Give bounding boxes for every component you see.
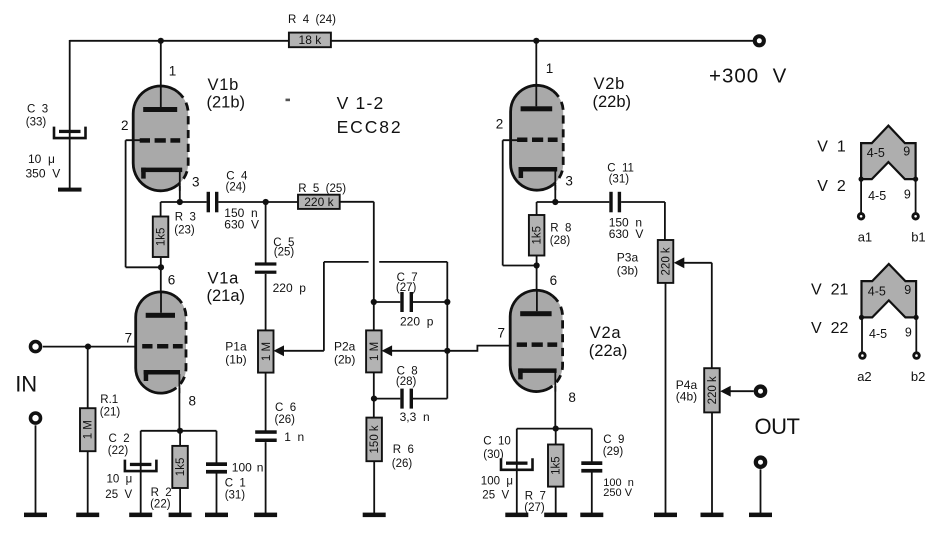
resistor R2 (172, 446, 188, 488)
svg-text:R 4 (24): R 4 (24) (288, 14, 336, 26)
label V 22 (811, 320, 848, 337)
wire C8 right (413, 398, 447, 400)
terminal +300 V (755, 36, 764, 45)
label pins 4-5 V22 (869, 327, 887, 341)
wire V1a cathode (178, 388, 180, 431)
svg-text:(27): (27) (396, 282, 417, 294)
label P4a (676, 378, 698, 404)
label P2a (334, 340, 356, 367)
label C3 (26, 103, 48, 128)
svg-text:V 1: V 1 (817, 139, 846, 156)
wire IN lower ground (35, 425, 37, 513)
svg-text:C 4: C 4 (226, 170, 248, 182)
label b1 (911, 230, 925, 245)
capacitor C9 (581, 461, 602, 472)
svg-text:(30): (30) (483, 449, 504, 461)
label b2 (911, 369, 925, 384)
arrow P1a wiper (274, 345, 285, 356)
svg-text:R 5 (25): R 5 (25) (298, 183, 346, 195)
label C2 value (105, 473, 132, 501)
wire P2a top (373, 302, 375, 330)
label C5 (273, 237, 294, 259)
wire V1b grid (126, 140, 161, 267)
svg-text:(25): (25) (274, 247, 295, 259)
label C11 value (609, 215, 644, 241)
terminal OUT lower (756, 458, 765, 467)
svg-text:V1b: V1b (208, 76, 239, 94)
arrow P4a wiper (720, 386, 731, 397)
wire P1a wiper crossover (379, 262, 447, 302)
ground C2 (129, 513, 152, 518)
capacitor C6 (255, 430, 277, 442)
label C4 value (224, 206, 259, 232)
node C4-R5 (263, 199, 269, 205)
triode V1a (136, 291, 186, 393)
svg-text:C 3: C 3 (27, 103, 48, 115)
svg-text:220 k: 220 k (707, 376, 719, 404)
capacitor C11 (609, 192, 621, 213)
svg-text:10 μ: 10 μ (107, 473, 133, 485)
svg-text:1 M: 1 M (369, 342, 381, 361)
label R4 (288, 14, 336, 26)
svg-text:b1: b1 (911, 230, 925, 245)
svg-text:6: 6 (168, 272, 176, 287)
resistor R4 (289, 33, 331, 48)
wire C9 bottom (591, 471, 593, 514)
node V2b cathode (552, 199, 558, 205)
wire P3a wiper (683, 263, 712, 369)
wire C5 top (265, 202, 267, 263)
triode V1b (133, 86, 188, 191)
terminal OUT upper (756, 387, 765, 396)
svg-text:250 V: 250 V (603, 487, 632, 499)
resistor R6 (366, 418, 382, 462)
wire C11 left (555, 201, 609, 203)
wire P4a wiper (730, 390, 754, 392)
capacitor C1 (206, 462, 227, 473)
capacitor C2 (125, 460, 156, 472)
label C7 (396, 272, 418, 294)
node pin1 V2b (533, 38, 539, 44)
svg-text:8: 8 (568, 390, 576, 405)
svg-text:(22): (22) (150, 498, 171, 510)
node C7 right (444, 299, 450, 305)
label V2b (593, 75, 632, 111)
label pin 2 V2b (496, 117, 504, 132)
svg-text:V 1-2: V 1-2 (337, 93, 385, 113)
label pin 6 V2a (550, 273, 558, 288)
svg-text:9: 9 (904, 188, 911, 202)
label V2a (589, 324, 628, 360)
svg-text:6: 6 (550, 273, 558, 288)
label C5 value (273, 281, 307, 295)
node heater b1 (913, 177, 918, 182)
label pins 4-5 V2 (868, 189, 886, 203)
svg-text:C 6: C 6 (275, 402, 296, 414)
label C4 (226, 170, 248, 193)
label R7 (524, 491, 546, 514)
label pin 8 V1a (189, 394, 197, 409)
label OUT (755, 414, 800, 439)
triode V2a (510, 290, 562, 392)
label pin 1 V1b (169, 64, 177, 79)
label C10 value (481, 475, 513, 501)
svg-text:(33): (33) (26, 116, 47, 128)
svg-text:(31): (31) (609, 174, 630, 186)
label V 1-2 (337, 93, 385, 113)
svg-text:(22): (22) (108, 445, 129, 457)
ground R1 (76, 513, 99, 518)
node P2a top (371, 299, 377, 305)
resistor R8 (529, 215, 545, 256)
svg-text:(21): (21) (100, 406, 121, 418)
wire V1b plate (160, 41, 162, 88)
label V 2 (817, 178, 846, 195)
svg-text:(27): (27) (524, 502, 545, 514)
svg-text:(26): (26) (392, 458, 413, 470)
wire cathode node h (141, 430, 217, 432)
svg-text:3: 3 (192, 175, 200, 190)
node SRPP V1 (158, 264, 164, 270)
terminal IN lower (31, 413, 41, 423)
heater jumper V1 (861, 126, 916, 180)
svg-text:4-5: 4-5 (867, 146, 885, 160)
wire C8 left (374, 398, 401, 400)
node heater a1 (859, 177, 864, 182)
wire R7 top (555, 429, 557, 445)
svg-text:18 k: 18 k (299, 33, 323, 47)
arrow P3a wiper (674, 257, 685, 268)
svg-text:9: 9 (903, 145, 910, 159)
svg-text:350 V: 350 V (26, 166, 61, 180)
capacitor C3 (54, 127, 86, 139)
svg-text:630 V: 630 V (224, 218, 259, 232)
node V1b cathode (177, 199, 183, 205)
label P3a (617, 251, 639, 278)
svg-text:a1: a1 (858, 230, 872, 245)
potentiometer P1a (258, 330, 274, 372)
svg-text:7: 7 (125, 330, 133, 345)
svg-text:(26): (26) (275, 414, 296, 426)
wire C1 top (216, 431, 218, 463)
svg-text:1k5: 1k5 (175, 458, 187, 477)
label a2 (857, 369, 871, 384)
svg-text:100 μ: 100 μ (481, 475, 513, 487)
svg-text:V2b: V2b (594, 75, 625, 93)
wire heater a1 (860, 179, 862, 213)
capacitor C7 (400, 292, 413, 312)
resistor R3 (153, 217, 169, 258)
label V 1 (817, 139, 846, 156)
svg-text:220 k: 220 k (304, 195, 334, 209)
node V1a cathode (177, 428, 183, 434)
wire C7 left (374, 301, 401, 303)
node IN-R1 (85, 344, 91, 350)
svg-text:220 p: 220 p (400, 315, 434, 329)
terminal b2 (914, 353, 920, 359)
wire C4 left (180, 201, 207, 203)
svg-text:8: 8 (189, 394, 197, 409)
wire heater b1 (915, 179, 917, 213)
svg-text:1 M: 1 M (261, 342, 273, 361)
capacitor C8 (400, 389, 413, 409)
label C3 value (26, 152, 61, 181)
svg-text:R.1: R.1 (100, 394, 118, 406)
node pin1 V1b (158, 38, 164, 44)
ground OUT (749, 513, 772, 518)
svg-text:V 21: V 21 (811, 282, 848, 299)
wire V2a cathode h (517, 428, 592, 430)
ground P3a (654, 513, 677, 518)
svg-text:V2a: V2a (590, 324, 622, 342)
svg-text:4-5: 4-5 (868, 285, 886, 299)
wire V1b cathode (179, 186, 181, 202)
wire C4 right (218, 201, 298, 203)
wire P1a-C6 (265, 373, 267, 431)
svg-text:1k5: 1k5 (551, 456, 563, 475)
svg-text:1: 1 (546, 61, 554, 76)
label pin 9 V22 (905, 326, 912, 340)
wire C5-P1a (265, 274, 267, 331)
label R6 (392, 444, 414, 470)
svg-text:1: 1 (169, 64, 177, 79)
label pins 4-5 V21 (868, 285, 886, 299)
svg-text:(22a): (22a) (589, 342, 628, 360)
svg-text:ECC82: ECC82 (337, 117, 403, 137)
svg-text:C 10: C 10 (483, 436, 511, 448)
capacitor C5 (255, 262, 277, 273)
wire C2 branch (140, 431, 142, 514)
label pin 9 V21 (904, 283, 911, 297)
svg-text:10 μ: 10 μ (28, 152, 55, 166)
wire C10 branch (516, 429, 518, 514)
wire R6 bottom (373, 461, 375, 513)
svg-text:n: n (257, 461, 264, 475)
label pin 6 V1a (168, 272, 176, 287)
svg-text:100: 100 (232, 461, 252, 475)
svg-text:1k5: 1k5 (532, 226, 544, 245)
ground C9 (580, 513, 603, 518)
svg-text:(4b): (4b) (676, 390, 697, 404)
label C10 (483, 436, 511, 461)
wire +300V rail (70, 40, 754, 42)
svg-text:1k5: 1k5 (156, 228, 168, 247)
triode V2b (511, 85, 564, 190)
label R8 (550, 222, 572, 247)
node SRPP V2 (534, 262, 540, 268)
wire C9 top (591, 429, 593, 462)
label pin 3 V1b (192, 175, 200, 190)
svg-text:220 p: 220 p (273, 281, 307, 295)
wire P4a bottom (711, 412, 713, 513)
svg-text:1 n: 1 n (284, 430, 304, 444)
svg-text:(21b): (21b) (207, 94, 246, 112)
terminal a2 (860, 353, 866, 359)
wire IN (43, 346, 149, 348)
svg-text:25 V: 25 V (482, 490, 509, 502)
wire V2b cathode (554, 185, 556, 202)
wire R2 bottom (179, 488, 181, 514)
svg-text:3,3 n: 3,3 n (400, 410, 430, 424)
svg-text:(1b): (1b) (225, 352, 246, 366)
svg-text:(23): (23) (174, 225, 195, 237)
label pins 4-5 V1 (867, 146, 885, 160)
svg-text:25 V: 25 V (105, 489, 132, 501)
node heater a2 (859, 315, 864, 320)
svg-text:C 9: C 9 (603, 434, 624, 446)
ground C10 (505, 513, 528, 518)
resistor R1 (80, 408, 96, 451)
label C11 (607, 163, 634, 186)
svg-text:4-5: 4-5 (869, 327, 887, 341)
label a1 (858, 230, 872, 245)
capacitor C4 (207, 192, 219, 213)
node V2a cathode (553, 426, 559, 432)
svg-text:9: 9 (905, 326, 912, 340)
potentiometer P3a (658, 240, 674, 283)
wire R5 right (340, 202, 374, 302)
svg-text:4-5: 4-5 (868, 189, 886, 203)
label C9 (603, 434, 625, 458)
wire R3 bottom (160, 257, 162, 312)
label R3 (174, 212, 196, 237)
label V1a (207, 269, 246, 305)
label pin 8 V2a (568, 390, 576, 405)
node P2a-R6 (371, 396, 377, 402)
ground R2 (169, 513, 192, 518)
ground P4a (701, 513, 724, 518)
label R1 (100, 394, 121, 418)
svg-text:(31): (31) (225, 489, 246, 501)
ground R7 (544, 513, 567, 518)
wire C3 branch (69, 40, 71, 188)
wire V2b grid (503, 140, 537, 265)
label R2 (150, 487, 172, 511)
label V 21 (811, 282, 848, 299)
potentiometer P2a (366, 330, 382, 372)
label pin 1 V2b (546, 61, 554, 76)
svg-text:7: 7 (498, 326, 506, 341)
svg-text:1 M: 1 M (83, 420, 95, 439)
wire P2a wiper (391, 350, 447, 352)
wire C7 right (413, 301, 447, 303)
node heater b2 (914, 315, 919, 320)
ground C6 (254, 513, 277, 518)
svg-text:2: 2 (121, 118, 129, 133)
wire R2 top (179, 431, 181, 446)
label C6 (275, 402, 297, 426)
potentiometer P4a (704, 368, 720, 412)
wire R3 top (161, 202, 180, 217)
wire C11 right (621, 202, 665, 240)
svg-text:150 k: 150 k (369, 425, 381, 453)
ground C3 (58, 188, 82, 192)
wire P3a bottom (665, 283, 667, 514)
wire R1 top (87, 347, 89, 409)
wire R1 bottom (87, 451, 89, 513)
svg-text:a2: a2 (857, 369, 871, 384)
svg-text:(28): (28) (550, 235, 571, 247)
capacitor C10 (501, 458, 533, 470)
svg-text:(2b): (2b) (334, 352, 355, 366)
ground R6 (363, 513, 386, 518)
resistor R7 (548, 445, 564, 487)
label pin 9 V2 (904, 188, 911, 202)
svg-text:R 6: R 6 (393, 444, 414, 456)
label C1 value (232, 461, 264, 475)
ground C1 (205, 513, 228, 518)
wire OUT ground (760, 469, 762, 513)
svg-text:9: 9 (904, 283, 911, 297)
svg-text:V1a: V1a (208, 269, 240, 287)
wire P2a bottom (373, 372, 375, 417)
wire heater b2 (915, 317, 917, 352)
label pin 2 V1b (121, 118, 129, 133)
ground IN (24, 513, 47, 518)
svg-text:C 2: C 2 (109, 433, 130, 445)
wire P1a wiper (283, 262, 369, 351)
svg-text:(28): (28) (396, 376, 417, 388)
label C8 (396, 365, 418, 388)
label C8 value (400, 410, 430, 424)
wire V2b plate (535, 41, 537, 87)
svg-text:IN: IN (15, 372, 37, 397)
label pin 7 V2a (498, 326, 506, 341)
wire C6 bottom (265, 442, 267, 513)
svg-text:R 2: R 2 (151, 487, 172, 499)
svg-text:(22b): (22b) (593, 93, 632, 111)
label V1b (207, 76, 246, 112)
arrow P2a wiper (382, 345, 393, 356)
resistor R5 (298, 195, 340, 209)
label R5 (298, 183, 346, 195)
label C7 value (400, 315, 434, 329)
svg-text:(3b): (3b) (617, 263, 638, 277)
wire V2a cathode (554, 386, 556, 429)
wire R8 bottom (536, 256, 538, 312)
label +300 V (709, 65, 787, 88)
svg-text:R 8: R 8 (550, 222, 571, 234)
terminal b1 (913, 214, 919, 220)
heater jumper V21 (862, 264, 917, 317)
label C1 (225, 477, 246, 501)
svg-text:V 2: V 2 (817, 178, 846, 195)
label pin 9 V1 (903, 145, 910, 159)
label ECC82 (337, 117, 403, 137)
wire ladder right (446, 302, 448, 399)
node P2a wiper tap (444, 348, 450, 354)
svg-text:R 3: R 3 (175, 212, 196, 224)
svg-text:(21a): (21a) (207, 287, 246, 305)
label C2 (108, 433, 130, 457)
label P1a (225, 340, 247, 367)
wire R8 top (537, 202, 556, 215)
svg-text:R 7: R 7 (525, 491, 546, 503)
svg-text:+300 V: +300 V (709, 65, 787, 88)
svg-text:C 1: C 1 (225, 477, 246, 489)
wire heater a2 (861, 317, 863, 352)
svg-text:OUT: OUT (755, 414, 800, 439)
wire R7 bottom (555, 487, 557, 514)
wire C1 bottom (216, 473, 218, 514)
svg-text:3: 3 (565, 173, 573, 188)
label C9 value (603, 477, 634, 499)
svg-text:630 V: 630 V (609, 227, 644, 241)
terminal a1 (858, 214, 864, 220)
svg-text:V 22: V 22 (811, 320, 848, 337)
svg-text:b2: b2 (911, 369, 925, 384)
wire to V2a grid (447, 346, 523, 351)
